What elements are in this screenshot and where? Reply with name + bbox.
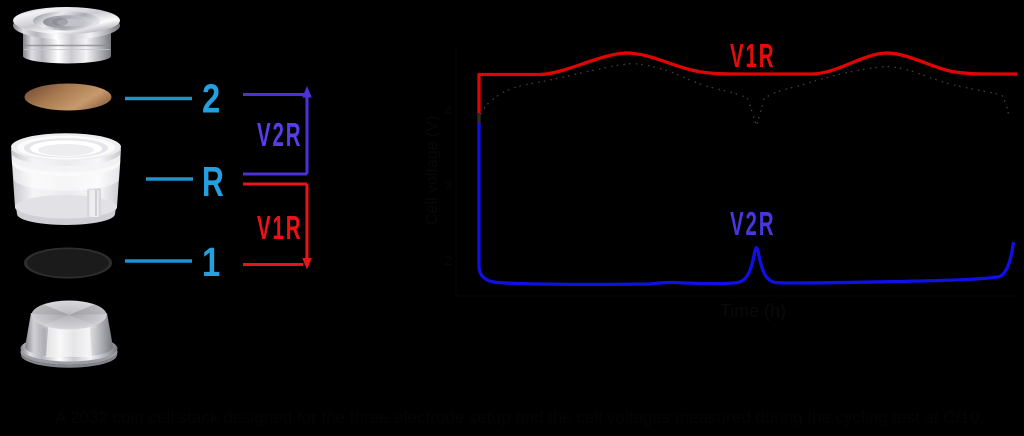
electrode disc 2 (copper) [25, 84, 112, 111]
junction at t=0 (dark) [477, 113, 480, 124]
cell body R (white plastic housing) [11, 133, 121, 225]
x-axis (near-invisible dark) [456, 295, 1016, 297]
svg-text:Time (h): Time (h) [720, 301, 786, 321]
V1R curve (red) [479, 53, 1017, 114]
svg-text:Cell voltage (V): Cell voltage (V) [424, 116, 441, 225]
svg-text:2: 2 [202, 75, 220, 121]
wire to node R [146, 177, 193, 180]
y-axis (near-invisible dark) [455, 48, 457, 296]
svg-text:3: 3 [445, 178, 452, 193]
wire to node 1 [125, 259, 192, 262]
svg-text:4: 4 [445, 103, 452, 118]
svg-text:1: 1 [202, 238, 220, 284]
svg-text:V1R: V1R [730, 37, 775, 74]
V12 dotted curve (dark dotted) [479, 64, 1009, 127]
svg-text:A 2032 coin cell stack designe: A 2032 coin cell stack designed for the … [55, 408, 984, 427]
bottom cap (stainless steel) [21, 301, 118, 368]
svg-text:R: R [202, 158, 224, 205]
V2R measurement arrow (indigo) [243, 93, 307, 174]
top cap (stainless steel) [13, 7, 120, 64]
electrode disc 1 (black) [24, 248, 112, 279]
svg-text:2: 2 [445, 253, 452, 268]
svg-text:V1R: V1R [257, 209, 302, 246]
wire to node 2 [125, 97, 192, 100]
svg-text:V2R: V2R [730, 205, 775, 242]
V1R measurement arrow (red) [243, 184, 307, 265]
y-axis tick labels (near-invisible) [445, 103, 452, 268]
V2R curve (blue) [479, 123, 1014, 284]
svg-text:V2R: V2R [257, 116, 302, 153]
